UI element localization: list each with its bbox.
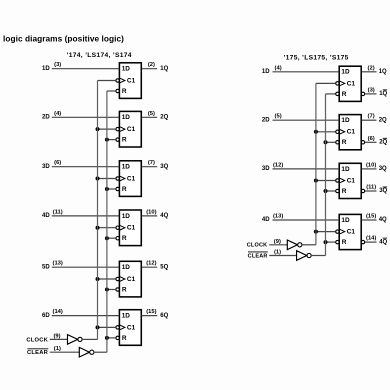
junction dot clear bus / R of flip-flop 6 bbox=[105, 336, 109, 340]
svg-text:4Q: 4Q bbox=[160, 213, 168, 219]
clock input C1 of flip-flop 5 (bubble + dynamic indicator) bbox=[116, 277, 119, 280]
inverter on CLEAR line (174) bbox=[79, 347, 89, 357]
flip-flop U2d bit 4 of 175 bbox=[339, 214, 361, 249]
wire clock bus stub to C1 of flip-flop 1 bbox=[98, 80, 116, 82]
svg-text:logic diagrams (positive logic: logic diagrams (positive logic) bbox=[3, 34, 124, 44]
wire 2D input line (175) bbox=[273, 119, 340, 121]
svg-text:C1: C1 bbox=[347, 229, 356, 236]
flip-flop U1d bit 4 of 174 bbox=[119, 210, 141, 246]
junction dot clear bus / R of 175 flip-flop 2 bbox=[324, 140, 328, 144]
junction dot clear bus / R of 175 flip-flop 4 bbox=[324, 240, 328, 244]
svg-text:2D: 2D bbox=[262, 117, 270, 123]
wire 1Q output line (175) bbox=[361, 71, 376, 73]
wire clock bus stub to C1 of 175 flip-flop 3 bbox=[316, 180, 336, 182]
svg-text:(3): (3) bbox=[54, 62, 61, 68]
svg-text:CLOCK: CLOCK bbox=[247, 243, 268, 249]
svg-text:(5): (5) bbox=[148, 111, 155, 117]
svg-text:(6): (6) bbox=[54, 160, 61, 166]
svg-text:3D: 3D bbox=[42, 164, 50, 170]
wire 1Q output line bbox=[141, 68, 157, 70]
svg-text:C1: C1 bbox=[127, 77, 136, 84]
svg-text:(4): (4) bbox=[275, 65, 282, 71]
wire clear bus stub to R of flip-flop 4 bbox=[107, 237, 116, 239]
wire clear bus stub to R of flip-flop 1 bbox=[107, 90, 116, 92]
junction dot clock bus / C1 of flip-flop 2 bbox=[96, 127, 100, 131]
inverter on CLOCK line (174) bbox=[68, 335, 78, 345]
junction dot clock bus / C1 of 175 flip-flop 3 bbox=[314, 179, 318, 183]
junction dot clear bus / R of flip-flop 5 bbox=[105, 288, 109, 292]
svg-text:(5): (5) bbox=[275, 114, 282, 120]
wire CLEAR inverter output to clear bus (175) bbox=[311, 255, 326, 257]
reset input R of flip-flop 5 (bubble) bbox=[116, 288, 119, 291]
svg-text:(10): (10) bbox=[146, 209, 156, 215]
svg-text:(3): (3) bbox=[368, 87, 375, 93]
wire 3Q output line bbox=[141, 166, 157, 168]
svg-text:3Q: 3Q bbox=[379, 166, 387, 172]
svg-text:1D: 1D bbox=[341, 117, 350, 124]
reset input R of 175 flip-flop 3 bbox=[336, 189, 339, 192]
wire 3Q output line (175) bbox=[361, 168, 376, 170]
svg-text:1D: 1D bbox=[122, 66, 131, 73]
svg-text:1Q: 1Q bbox=[160, 66, 168, 72]
flip-flop U2c bit 3 of 175 bbox=[339, 163, 361, 198]
wire 1D input line (175) bbox=[273, 71, 340, 73]
wire 4Q output line bbox=[141, 215, 157, 217]
svg-text:2Q: 2Q bbox=[160, 115, 168, 121]
svg-text:5Q: 5Q bbox=[160, 264, 168, 270]
wire clock bus stub to C1 of flip-flop 3 bbox=[98, 178, 116, 180]
svg-text:(11): (11) bbox=[366, 185, 376, 191]
svg-text:’174, ’LS174, ’S174: ’174, ’LS174, ’S174 bbox=[67, 52, 132, 59]
wire clear bus stub to R of flip-flop 2 bbox=[107, 139, 116, 141]
reset input R of 175 flip-flop 1 bbox=[336, 92, 339, 95]
svg-text:(11): (11) bbox=[53, 209, 63, 215]
wire 4D input line bbox=[52, 215, 120, 217]
svg-text:R: R bbox=[342, 91, 347, 98]
clock input C1 of flip-flop 2 (bubble + dynamic indicator) bbox=[116, 127, 119, 130]
clock input C1 of flip-flop 6 (bubble + dynamic indicator) bbox=[116, 326, 119, 329]
svg-text:6D: 6D bbox=[42, 313, 50, 319]
wire CLOCK vertical bus (175) bbox=[315, 83, 317, 244]
wire 5D input line bbox=[52, 266, 120, 268]
wire clear bus stub to R of flip-flop 5 bbox=[107, 289, 116, 291]
wire 2Q output line bbox=[141, 116, 157, 118]
svg-text:(12): (12) bbox=[273, 162, 283, 168]
complement output bubble of 175 flip-flop 4 bbox=[361, 240, 364, 243]
svg-text:3Q: 3Q bbox=[160, 164, 168, 170]
svg-text:1D: 1D bbox=[341, 69, 350, 76]
svg-text:(6): (6) bbox=[368, 136, 375, 142]
wire clear bus stub to R of 175 flip-flop 2 bbox=[326, 141, 336, 143]
flip-flop U2b bit 2 of 175 bbox=[339, 115, 361, 150]
svg-text:1D: 1D bbox=[122, 164, 131, 171]
junction dot clock bus / C1 of flip-flop 3 bbox=[96, 177, 100, 181]
svg-text:(1): (1) bbox=[54, 346, 61, 352]
svg-text:R: R bbox=[122, 186, 127, 193]
inverter on CLEAR line (175) bbox=[297, 251, 307, 261]
svg-text:1D: 1D bbox=[122, 313, 131, 320]
svg-text:1D: 1D bbox=[341, 217, 350, 224]
complement output bubble of 175 flip-flop 1 bbox=[361, 92, 364, 95]
wire 6Q output line bbox=[141, 315, 157, 317]
svg-text:R: R bbox=[122, 235, 127, 242]
svg-text:1Q: 1Q bbox=[379, 69, 387, 75]
svg-text:1D: 1D bbox=[341, 166, 350, 173]
wire clock bus stub to C1 of 175 flip-flop 2 bbox=[316, 131, 336, 133]
wire 2D input line bbox=[52, 116, 120, 118]
svg-text:1D: 1D bbox=[122, 264, 131, 271]
svg-text:4Q: 4Q bbox=[379, 239, 387, 245]
svg-text:C1: C1 bbox=[127, 225, 136, 232]
wire clock bus stub to C1 of flip-flop 4 bbox=[98, 227, 116, 229]
svg-text:2Q: 2Q bbox=[379, 140, 387, 146]
svg-text:R: R bbox=[342, 239, 347, 246]
wire clear bus stub to R of 175 flip-flop 4 bbox=[326, 241, 336, 243]
svg-text:2Q: 2Q bbox=[379, 117, 387, 123]
svg-text:(7): (7) bbox=[368, 114, 375, 120]
wire clock bus stub to C1 of 175 flip-flop 1 bbox=[316, 82, 336, 84]
svg-text:1D: 1D bbox=[122, 114, 131, 121]
clock input C1 of 175 flip-flop 1 bbox=[336, 82, 339, 85]
svg-text:C1: C1 bbox=[347, 129, 356, 136]
wire 3D input line bbox=[52, 166, 120, 168]
svg-text:(15): (15) bbox=[366, 214, 376, 220]
clock input C1 of 175 flip-flop 4 bbox=[336, 230, 339, 233]
flip-flop U1b bit 2 of 174 bbox=[119, 111, 141, 147]
svg-text:C1: C1 bbox=[127, 175, 136, 182]
flip-flop U1c bit 3 of 174 bbox=[119, 161, 141, 197]
junction dot clock bus / C1 of flip-flop 4 bbox=[96, 226, 100, 230]
svg-text:(14): (14) bbox=[53, 309, 63, 315]
svg-text:1D: 1D bbox=[262, 69, 270, 75]
wire clock bus stub to C1 of flip-flop 6 bbox=[98, 326, 116, 328]
wire clear bus stub to R of flip-flop 6 bbox=[107, 337, 116, 339]
svg-text:C1: C1 bbox=[127, 276, 136, 283]
svg-text:(15): (15) bbox=[146, 309, 156, 315]
svg-text:2D: 2D bbox=[42, 115, 50, 121]
svg-text:(4): (4) bbox=[54, 111, 61, 117]
wire CLEAR input line (174) bbox=[50, 351, 80, 353]
reset input R of flip-flop 6 (bubble) bbox=[116, 336, 119, 339]
wire clock bus stub to C1 of 175 flip-flop 4 bbox=[316, 231, 336, 233]
svg-text:4D: 4D bbox=[262, 217, 270, 223]
wire CLOCK inverter output to clock bus (174) bbox=[82, 338, 98, 340]
svg-text:C1: C1 bbox=[127, 324, 136, 331]
svg-text:C1: C1 bbox=[347, 80, 356, 87]
wire CLOCK inverter output to clock bus (175) bbox=[302, 244, 316, 246]
svg-text:CLEAR: CLEAR bbox=[248, 253, 268, 259]
complement output bubble of 175 flip-flop 2 bbox=[361, 141, 364, 144]
svg-text:C1: C1 bbox=[127, 126, 136, 133]
wire CLOCK input line (174) bbox=[50, 338, 68, 340]
svg-text:R: R bbox=[122, 137, 127, 144]
svg-text:(12): (12) bbox=[146, 261, 156, 267]
reset input R of flip-flop 3 (bubble) bbox=[116, 187, 119, 190]
flip-flop U1f bit 6 of 174 bbox=[119, 310, 141, 346]
clock input C1 of flip-flop 3 (bubble + dynamic indicator) bbox=[116, 177, 119, 180]
svg-text:R: R bbox=[122, 88, 127, 95]
svg-text:1D: 1D bbox=[122, 213, 131, 220]
wire 1D input line bbox=[52, 68, 120, 70]
svg-text:(9): (9) bbox=[274, 239, 281, 245]
wire 3D input line (175) bbox=[273, 168, 340, 170]
svg-text:4Q: 4Q bbox=[379, 217, 387, 223]
wire 6D input line bbox=[52, 315, 120, 317]
junction dot clear bus / R of 175 flip-flop 3 bbox=[324, 189, 328, 193]
flip-flop U1a bit 1 of 174 bbox=[119, 63, 141, 99]
svg-text:R: R bbox=[342, 139, 347, 146]
junction dot clock bus / C1 of flip-flop 5 bbox=[96, 277, 100, 281]
wire 4D input line (175) bbox=[273, 219, 340, 221]
svg-text:C1: C1 bbox=[347, 177, 356, 184]
svg-text:3Q: 3Q bbox=[379, 188, 387, 194]
junction dot clear bus / R of flip-flop 4 bbox=[105, 236, 109, 240]
svg-text:(9): (9) bbox=[54, 334, 61, 340]
wire CLOCK input line (175) bbox=[269, 244, 287, 246]
wire 2Qbar output line (175) bbox=[365, 141, 377, 143]
svg-text:3D: 3D bbox=[262, 166, 270, 172]
clock input C1 of 175 flip-flop 2 bbox=[336, 130, 339, 133]
wire CLEAR inverter output to clear bus (174) bbox=[94, 351, 107, 353]
wire 1Qbar output line (175) bbox=[365, 93, 377, 95]
svg-text:(10): (10) bbox=[366, 162, 376, 168]
clock input C1 of flip-flop 4 (bubble + dynamic indicator) bbox=[116, 226, 119, 229]
wire clear bus stub to R of flip-flop 3 bbox=[107, 188, 116, 190]
wire clear bus stub to R of 175 flip-flop 3 bbox=[326, 190, 336, 192]
wire clear bus stub to R of 175 flip-flop 1 bbox=[326, 93, 336, 95]
svg-text:(13): (13) bbox=[53, 261, 63, 267]
svg-text:’175, ’LS175, ’S175: ’175, ’LS175, ’S175 bbox=[284, 55, 349, 62]
clock input C1 of flip-flop 1 (bubble + dynamic indicator) bbox=[116, 79, 119, 82]
svg-text:CLOCK: CLOCK bbox=[26, 337, 48, 343]
inverter on CLOCK line (175) bbox=[287, 240, 297, 250]
svg-text:R: R bbox=[122, 286, 127, 293]
svg-text:(7): (7) bbox=[148, 160, 155, 166]
reset input R of flip-flop 4 (bubble) bbox=[116, 237, 119, 240]
junction dot clock bus / C1 of flip-flop 6 bbox=[96, 325, 100, 329]
svg-text:1D: 1D bbox=[42, 66, 50, 72]
svg-text:(13): (13) bbox=[273, 214, 283, 220]
complement output bubble of 175 flip-flop 3 bbox=[361, 189, 364, 192]
wire clock bus stub to C1 of flip-flop 5 bbox=[98, 278, 116, 280]
svg-text:6Q: 6Q bbox=[160, 313, 168, 319]
svg-text:(1): (1) bbox=[274, 249, 281, 255]
wire CLEAR vertical bus (174) bbox=[106, 91, 108, 352]
wire CLOCK vertical bus (174) bbox=[97, 81, 99, 340]
svg-text:CLEAR: CLEAR bbox=[27, 350, 49, 356]
svg-text:(14): (14) bbox=[366, 236, 376, 242]
clock input C1 of 175 flip-flop 3 bbox=[336, 179, 339, 182]
reset input R of flip-flop 1 (bubble) bbox=[116, 89, 119, 92]
wire CLEAR input line (175) bbox=[269, 255, 296, 257]
junction dot clear bus / R of flip-flop 2 bbox=[105, 138, 109, 142]
svg-text:R: R bbox=[122, 335, 127, 342]
wire 2Q output line (175) bbox=[361, 119, 376, 121]
wire CLEAR vertical bus (175) bbox=[325, 94, 327, 256]
wire clock bus stub to C1 of flip-flop 2 bbox=[98, 128, 116, 130]
reset input R of 175 flip-flop 2 bbox=[336, 141, 339, 144]
reset input R of 175 flip-flop 4 bbox=[336, 240, 339, 243]
wire 3Qbar output line (175) bbox=[365, 190, 377, 192]
junction dot clear bus / R of flip-flop 3 bbox=[105, 187, 109, 191]
reset input R of flip-flop 2 (bubble) bbox=[116, 138, 119, 141]
svg-text:4D: 4D bbox=[42, 213, 50, 219]
svg-text:(2): (2) bbox=[368, 65, 375, 71]
junction dot clock bus / C1 of 175 flip-flop 2 bbox=[314, 130, 318, 134]
wire 4Q output line (175) bbox=[361, 219, 376, 221]
svg-text:(2): (2) bbox=[148, 62, 155, 68]
svg-text:R: R bbox=[342, 188, 347, 195]
junction dot clock bus / C1 of 175 flip-flop 4 bbox=[314, 230, 318, 234]
wire 4Qbar output line (175) bbox=[365, 241, 377, 243]
svg-text:1Q: 1Q bbox=[379, 91, 387, 97]
flip-flop U2a bit 1 of 175 bbox=[339, 66, 361, 101]
wire 5Q output line bbox=[141, 266, 157, 268]
svg-text:5D: 5D bbox=[42, 264, 50, 270]
flip-flop U1e bit 5 of 174 bbox=[119, 261, 141, 297]
